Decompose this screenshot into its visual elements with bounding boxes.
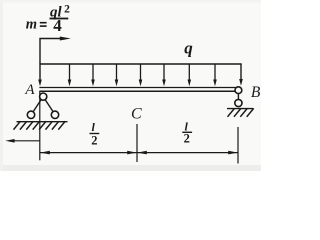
- ground under B: [227, 108, 254, 116]
- load arrow 7: [188, 64, 192, 86]
- load arrow 1 (left edge): [38, 64, 42, 86]
- beam AB (double line): [39, 88, 236, 92]
- load arrow 3: [91, 64, 95, 86]
- dimension line A-C: [40, 151, 137, 155]
- dimension line C-B: [137, 151, 238, 155]
- dimension label l/2 (left): [90, 120, 100, 147]
- svg-text:q: q: [184, 38, 193, 57]
- support A (pin: hinge circle on two links with rollers): [27, 93, 58, 119]
- paper background: [0, 0, 261, 171]
- svg-text:A: A: [24, 82, 35, 98]
- svg-text:2: 2: [184, 132, 190, 146]
- moment arrow (bent arrow of couple m at A): [40, 37, 71, 65]
- distributed load line q: [39, 63, 241, 65]
- svg-text:m: m: [26, 17, 37, 33]
- load arrow 2: [68, 64, 72, 86]
- svg-text:2: 2: [64, 4, 70, 16]
- extension tick at B: [237, 127, 239, 164]
- svg-text:2: 2: [91, 133, 97, 147]
- stray left reference arrow: [5, 139, 40, 143]
- extension tick at C: [136, 124, 138, 162]
- support B (roller: hinge circle over link and roller): [235, 87, 242, 107]
- load arrow 9 (right edge): [239, 64, 243, 86]
- svg-text:4: 4: [53, 16, 62, 35]
- svg-text:B: B: [251, 84, 261, 101]
- load arrow 4: [115, 64, 119, 86]
- load arrow 5: [139, 64, 143, 86]
- extension line at A (vertical through support to dimension): [39, 91, 41, 160]
- svg-text:C: C: [131, 106, 142, 123]
- ground under A: [14, 121, 68, 129]
- load arrow 6: [162, 64, 166, 86]
- formula m = ql^2/4: [26, 4, 70, 36]
- dimension label l/2 (right): [182, 119, 192, 145]
- load arrow 8: [213, 64, 217, 86]
